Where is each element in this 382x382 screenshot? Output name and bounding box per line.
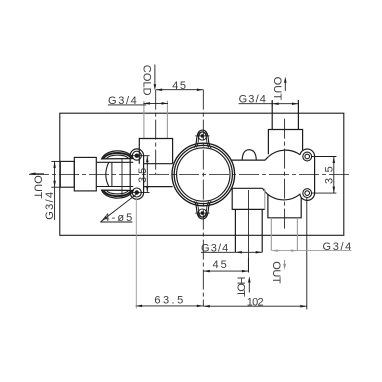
63.5 arrows xyxy=(136,305,143,308)
dim 35 right xyxy=(312,156,337,158)
left flange screw bottom xyxy=(132,188,141,197)
ext 63.5 gray xyxy=(135,197,137,309)
dim 63.5 xyxy=(136,305,204,307)
barrel left segment xyxy=(144,163,173,165)
cold G3/4 arrows xyxy=(143,102,150,105)
35 left arrows xyxy=(146,156,149,163)
dim 45 top xyxy=(156,89,204,91)
flow arrows xyxy=(29,65,286,293)
svg-text:OUT: OUT xyxy=(271,77,283,101)
svg-text:102: 102 xyxy=(247,296,264,308)
centerline cold pipe xyxy=(155,90,157,174)
main circle rings xyxy=(172,143,235,206)
svg-text:COLD: COLD xyxy=(140,65,152,96)
out top G3/4 arrows xyxy=(272,102,279,105)
main top ear xyxy=(194,130,212,148)
bottom out flow down xyxy=(284,260,286,266)
centerline left cartridge xyxy=(121,159,123,198)
svg-text:G3/4: G3/4 xyxy=(44,192,56,220)
dim 35 left xyxy=(142,155,150,157)
svg-text:G3/4: G3/4 xyxy=(108,95,137,107)
hot pipe xyxy=(234,209,236,252)
dim 102 xyxy=(203,305,306,307)
svg-text:G3/4: G3/4 xyxy=(239,94,267,106)
svg-text:OUT: OUT xyxy=(32,175,44,199)
left cylinder xyxy=(74,157,96,191)
dim 45 bottom xyxy=(203,270,248,272)
102 arrows xyxy=(203,305,210,308)
svg-text:HOT: HOT xyxy=(235,277,247,298)
right screw bottom xyxy=(303,189,312,198)
hot boss xyxy=(232,188,265,209)
centerline main vertical xyxy=(202,90,204,306)
svg-text:G3/4: G3/4 xyxy=(201,242,229,254)
dim out G3/4 bottom gray xyxy=(271,250,351,252)
spool top lens xyxy=(102,151,134,159)
bottom out pipe gray xyxy=(271,218,297,251)
top out boss xyxy=(268,130,302,155)
spool body lines xyxy=(97,161,134,163)
mounting plate xyxy=(60,113,344,235)
barrel right segment xyxy=(231,157,268,160)
spool concave waist xyxy=(106,162,109,186)
dim hot G3/4 xyxy=(201,251,262,253)
svg-text:45: 45 xyxy=(213,259,228,271)
cold boss xyxy=(139,139,172,164)
hot G3/4 arrows xyxy=(235,251,242,254)
45 top arrows xyxy=(156,88,163,91)
centerline hot pipe xyxy=(248,190,250,272)
top out pipe xyxy=(271,100,273,129)
main bottom ear xyxy=(194,201,212,219)
right body circle xyxy=(263,149,315,200)
left out tube xyxy=(60,161,74,187)
small dome on barrel xyxy=(242,150,256,160)
left G3/4 arrows xyxy=(53,161,56,168)
cold flow down xyxy=(154,65,156,86)
hot flow up xyxy=(248,281,250,293)
centerline horizontal xyxy=(29,174,351,176)
left flange cap xyxy=(130,149,143,199)
top out flow up xyxy=(284,81,286,92)
cold pipe gray xyxy=(144,101,168,139)
left out flow left xyxy=(33,173,44,175)
35 right arrows xyxy=(333,157,336,164)
svg-text:OUT: OUT xyxy=(270,261,282,284)
right screw top xyxy=(303,152,312,161)
bottom out G3/4 arrows gray xyxy=(271,249,278,252)
svg-text:63.5: 63.5 xyxy=(154,295,183,307)
dim out G3/4 top xyxy=(239,103,299,105)
dim left G3/4 xyxy=(51,160,60,162)
leader 4-o5 xyxy=(101,195,136,222)
svg-text:G3/4: G3/4 xyxy=(323,241,352,253)
svg-text:4-ø5: 4-ø5 xyxy=(104,212,133,224)
spool bottom lens xyxy=(102,190,134,198)
45 bottom arrows xyxy=(203,270,210,273)
arrowheads xyxy=(53,88,335,307)
bottom out boss xyxy=(268,194,301,218)
svg-text:45: 45 xyxy=(172,80,186,92)
left flange screw top xyxy=(132,151,141,160)
centerline right body xyxy=(284,119,286,229)
ext 102 xyxy=(306,198,308,310)
4-o5 leader arrow xyxy=(101,216,107,222)
dim cold G3/4 xyxy=(108,104,146,106)
